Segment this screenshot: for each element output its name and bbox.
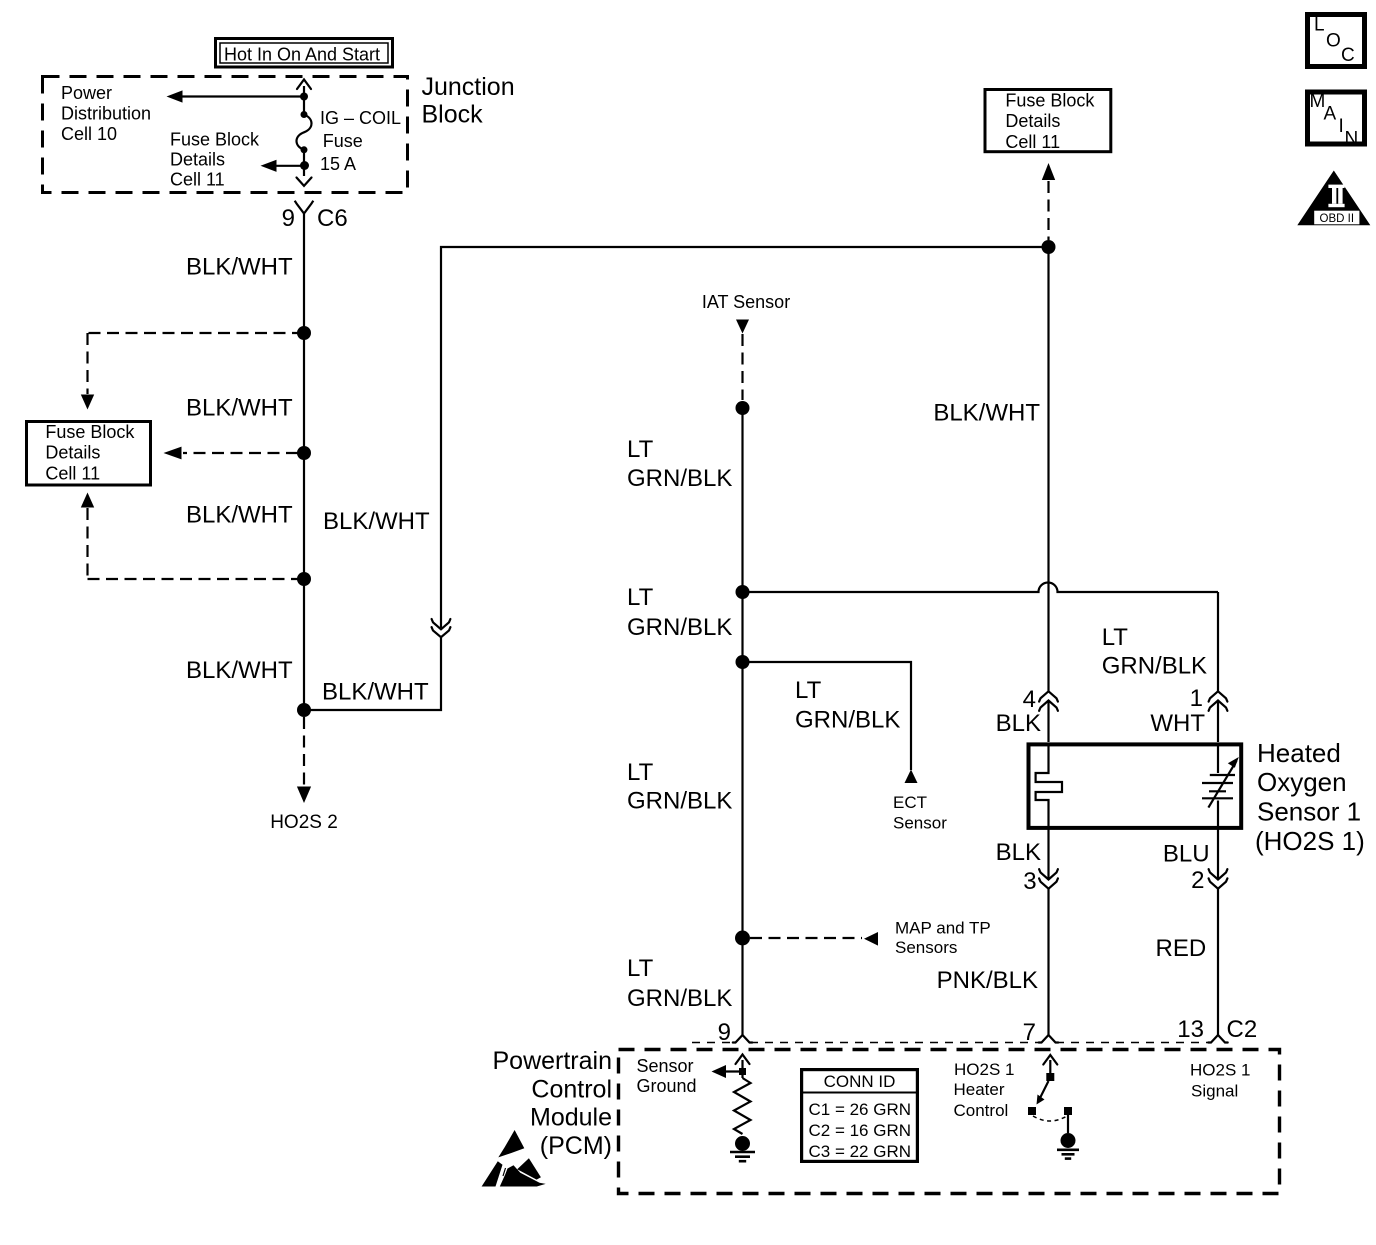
svg-text:C1 = 26 GRN: C1 = 26 GRN bbox=[809, 1100, 912, 1119]
svg-text:GRN/BLK: GRN/BLK bbox=[627, 465, 732, 492]
svg-text:IAT Sensor: IAT Sensor bbox=[702, 292, 790, 312]
svg-text:Fuse: Fuse bbox=[323, 131, 363, 151]
svg-text:Fuse Block: Fuse Block bbox=[1005, 90, 1095, 110]
svg-text:GRN/BLK: GRN/BLK bbox=[627, 788, 732, 815]
svg-text:C: C bbox=[1341, 45, 1355, 66]
svg-text:I: I bbox=[1339, 116, 1344, 137]
svg-text:MAP and TP: MAP and TP bbox=[895, 919, 991, 938]
svg-text:Sensor: Sensor bbox=[893, 814, 947, 833]
svg-text:HO2S 1: HO2S 1 bbox=[1190, 1061, 1250, 1080]
svg-text:Hot In On And Start: Hot In On And Start bbox=[224, 45, 380, 65]
svg-text:GRN/BLK: GRN/BLK bbox=[795, 707, 900, 734]
svg-text:BLK/WHT: BLK/WHT bbox=[186, 657, 293, 684]
svg-text:Ground: Ground bbox=[637, 1076, 697, 1096]
svg-text:Power: Power bbox=[61, 83, 112, 103]
svg-text:Distribution: Distribution bbox=[61, 103, 151, 123]
svg-text:Fuse Block: Fuse Block bbox=[45, 422, 135, 442]
svg-text:GRN/BLK: GRN/BLK bbox=[627, 985, 732, 1012]
svg-text:Sensor 1: Sensor 1 bbox=[1257, 797, 1361, 827]
svg-text:Heated: Heated bbox=[1257, 738, 1341, 768]
svg-text:Cell 10: Cell 10 bbox=[61, 124, 117, 144]
svg-text:(PCM): (PCM) bbox=[540, 1132, 612, 1160]
svg-text:GRN/BLK: GRN/BLK bbox=[1102, 653, 1207, 680]
svg-text:N: N bbox=[1345, 129, 1359, 150]
svg-text:C6: C6 bbox=[317, 205, 348, 232]
svg-text:LT: LT bbox=[627, 955, 654, 982]
svg-text:Powertrain: Powertrain bbox=[493, 1047, 613, 1075]
svg-text:Heater: Heater bbox=[954, 1080, 1005, 1099]
svg-text:Sensor: Sensor bbox=[637, 1056, 694, 1076]
svg-text:WHT: WHT bbox=[1150, 710, 1205, 737]
svg-text:Signal: Signal bbox=[1191, 1082, 1238, 1101]
svg-text:Block: Block bbox=[422, 101, 484, 129]
svg-text:ECT: ECT bbox=[893, 793, 927, 812]
svg-text:GRN/BLK: GRN/BLK bbox=[627, 614, 732, 641]
svg-text:BLK/WHT: BLK/WHT bbox=[186, 395, 293, 422]
svg-text:Cell 11: Cell 11 bbox=[45, 464, 100, 484]
svg-text:LT: LT bbox=[1102, 624, 1129, 651]
svg-text:Fuse Block: Fuse Block bbox=[170, 130, 260, 150]
svg-text:C2 = 16 GRN: C2 = 16 GRN bbox=[809, 1121, 912, 1140]
svg-text:Control: Control bbox=[531, 1075, 612, 1103]
svg-text:Details: Details bbox=[45, 443, 100, 463]
svg-text:(HO2S 1): (HO2S 1) bbox=[1255, 826, 1365, 856]
svg-text:2: 2 bbox=[1191, 867, 1204, 894]
svg-text:IG – COIL: IG – COIL bbox=[320, 108, 401, 128]
svg-text:LT: LT bbox=[627, 759, 654, 786]
svg-text:C2: C2 bbox=[1227, 1016, 1258, 1043]
svg-text:BLK: BLK bbox=[996, 710, 1041, 737]
svg-text:Oxygen: Oxygen bbox=[1257, 767, 1347, 797]
svg-text:HO2S 1: HO2S 1 bbox=[954, 1060, 1014, 1079]
svg-text:CONN ID: CONN ID bbox=[824, 1072, 896, 1091]
svg-text:HO2S 2: HO2S 2 bbox=[270, 812, 338, 833]
svg-text:BLK/WHT: BLK/WHT bbox=[323, 508, 430, 535]
svg-text:15 A: 15 A bbox=[320, 154, 356, 174]
svg-text:Module: Module bbox=[530, 1104, 612, 1132]
svg-text:C3 = 22 GRN: C3 = 22 GRN bbox=[809, 1142, 912, 1161]
svg-text:4: 4 bbox=[1023, 686, 1036, 713]
svg-text:Control: Control bbox=[954, 1101, 1009, 1120]
svg-text:9: 9 bbox=[282, 205, 295, 232]
svg-text:BLK/WHT: BLK/WHT bbox=[933, 400, 1040, 427]
svg-text:BLU: BLU bbox=[1163, 840, 1210, 867]
svg-text:BLK: BLK bbox=[996, 839, 1041, 866]
svg-text:BLK/WHT: BLK/WHT bbox=[186, 502, 293, 529]
svg-text:LT: LT bbox=[627, 436, 654, 463]
svg-text:Cell 11: Cell 11 bbox=[170, 170, 225, 190]
svg-text:O: O bbox=[1326, 31, 1341, 52]
svg-text:A: A bbox=[1324, 104, 1337, 125]
svg-text:1: 1 bbox=[1190, 685, 1203, 712]
svg-text:RED: RED bbox=[1156, 935, 1207, 962]
svg-text:Details: Details bbox=[170, 150, 225, 170]
svg-text:Junction: Junction bbox=[422, 73, 515, 101]
svg-text:LT: LT bbox=[627, 584, 654, 611]
svg-text:L: L bbox=[1314, 15, 1325, 36]
svg-text:Sensors: Sensors bbox=[895, 938, 957, 957]
svg-text:OBD II: OBD II bbox=[1320, 213, 1355, 225]
svg-text:Details: Details bbox=[1005, 111, 1060, 131]
svg-text:BLK/WHT: BLK/WHT bbox=[186, 254, 293, 281]
svg-text:PNK/BLK: PNK/BLK bbox=[937, 967, 1038, 994]
svg-text:13: 13 bbox=[1177, 1016, 1204, 1043]
svg-text:BLK/WHT: BLK/WHT bbox=[322, 679, 429, 706]
svg-text:3: 3 bbox=[1023, 868, 1036, 895]
svg-text:LT: LT bbox=[795, 677, 822, 704]
svg-text:Cell 11: Cell 11 bbox=[1005, 132, 1060, 152]
